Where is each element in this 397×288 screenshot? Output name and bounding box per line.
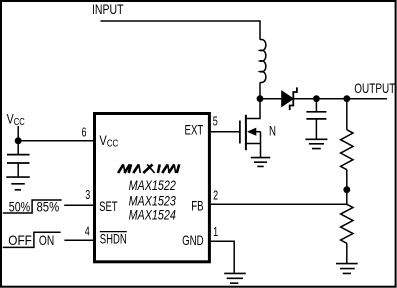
capacitor C1 [7, 155, 30, 163]
resistor R2 [341, 204, 353, 243]
ground under C1 [6, 177, 30, 190]
svg-text:EXT: EXT [185, 122, 204, 138]
node divider top junction dot [343, 95, 350, 102]
ground under pin1 [224, 273, 246, 283]
svg-text:OUTPUT: OUTPUT [354, 80, 395, 96]
svg-text:3: 3 [85, 187, 90, 202]
wire EXT pin5 to gate [211, 131, 239, 133]
node FB junction dot [343, 186, 350, 193]
node output cap junction dot [313, 95, 320, 102]
resistor R1 [341, 130, 353, 170]
ground under Q1 source [251, 158, 270, 167]
transistor Q1 N-MOSFET [239, 121, 241, 144]
wire C1 to ground [17, 163, 19, 176]
wire R1 to FB node [346, 170, 348, 205]
ground under R2 [336, 264, 358, 274]
node switch junction dot [257, 95, 264, 102]
wire C2 to ground [315, 119, 317, 139]
wire GND pin1 to ground [211, 241, 234, 272]
inductor L1 [260, 39, 266, 82]
svg-text:1: 1 [213, 224, 218, 239]
wire dot to C1 [17, 141, 19, 154]
svg-text:50%: 50% [9, 198, 30, 214]
svg-text:SHDN: SHDN [100, 231, 127, 247]
diode D1 schottky [282, 91, 294, 107]
svg-text:GND: GND [182, 232, 204, 248]
op-amp U1 MAX152x box [95, 114, 210, 262]
svg-text:ON: ON [39, 232, 54, 248]
wire VCC stub [17, 126, 19, 141]
svg-text:INPUT: INPUT [92, 1, 124, 17]
wire to capacitor C2 [315, 99, 317, 111]
svg-text:6: 6 [82, 124, 87, 139]
svg-text:MAX1524: MAX1524 [129, 206, 176, 222]
svg-text:MAX1522: MAX1522 [129, 177, 176, 193]
svg-text:5: 5 [213, 113, 218, 128]
wire inductor to switch node [259, 82, 261, 98]
wire VCC to pin6 [18, 140, 93, 142]
wire to SET pin3 [64, 204, 93, 206]
svg-text:4: 4 [85, 223, 90, 238]
wire SHDN selector step [3, 232, 61, 247]
wire diode to output [293, 98, 387, 100]
wire INPUT to inductor [101, 21, 261, 40]
capacitor C2 [306, 112, 326, 119]
wire SET selector step [3, 200, 62, 213]
ground under C2 [305, 139, 327, 148]
svg-text:N: N [269, 123, 276, 139]
wire to R1 [346, 99, 348, 130]
svg-text:OFF: OFF [8, 232, 32, 248]
wire to SHDN pin4 [64, 239, 93, 241]
wire node to diode [260, 98, 282, 100]
wire FB pin2 to divider [211, 203, 347, 205]
node VCC junction dot [15, 137, 22, 144]
logo MAXIM [118, 164, 179, 173]
svg-text:2: 2 [213, 187, 218, 202]
svg-text:SET: SET [99, 198, 118, 214]
wire R2 to ground [346, 243, 348, 263]
svg-text:FB: FB [191, 198, 203, 214]
